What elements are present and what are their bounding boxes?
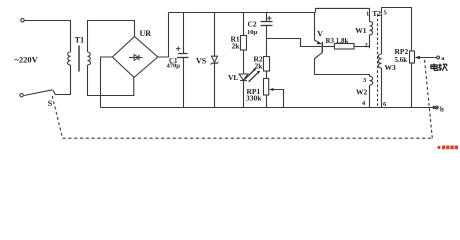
svg-text:V: V (317, 29, 323, 38)
svg-text:2k: 2k (232, 42, 241, 51)
svg-text:T1: T1 (75, 36, 84, 45)
svg-text:W2: W2 (356, 87, 368, 96)
svg-text:C2: C2 (248, 20, 257, 29)
svg-text:330k: 330k (246, 94, 262, 103)
svg-text:10μ: 10μ (247, 29, 258, 36)
svg-text:VL: VL (228, 73, 238, 82)
svg-text:T2: T2 (372, 9, 381, 18)
svg-text:RP2: RP2 (395, 47, 409, 56)
svg-text:470μ: 470μ (167, 63, 181, 70)
svg-text:W1: W1 (355, 26, 367, 35)
svg-text:a: a (441, 55, 445, 62)
svg-text:1: 1 (366, 10, 369, 17)
svg-text:b: b (440, 106, 444, 114)
svg-text:R3 1.8k: R3 1.8k (326, 37, 349, 45)
svg-text:S: S (48, 99, 53, 108)
svg-text:~220V: ~220V (15, 55, 39, 65)
svg-text:3: 3 (363, 77, 367, 84)
svg-text:5: 5 (384, 10, 388, 17)
svg-text:UR: UR (140, 29, 152, 38)
svg-text:4: 4 (362, 100, 366, 107)
svg-text:2k: 2k (255, 61, 264, 70)
svg-text:VS: VS (196, 57, 207, 66)
svg-text:5.6k: 5.6k (395, 56, 408, 64)
svg-text:W3: W3 (385, 63, 397, 72)
svg-text:2: 2 (365, 42, 368, 49)
